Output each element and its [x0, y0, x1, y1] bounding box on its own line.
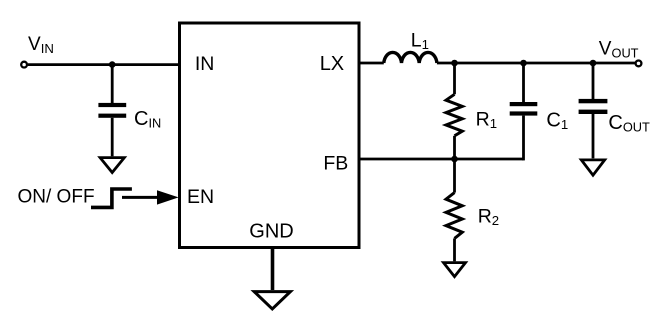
svg-text:LX: LX — [320, 53, 344, 75]
wire R2 bottom lead — [453, 238, 456, 261]
wire FB to C1 bottom — [359, 158, 524, 161]
resistor R1 — [446, 94, 462, 136]
node COUT top — [590, 60, 597, 67]
ground (CIN) — [100, 158, 124, 173]
terminal VIN — [21, 62, 27, 68]
wire COUT top lead — [592, 63, 595, 99]
wire R2 top lead — [453, 159, 456, 193]
node FB/R1/R2 junction — [451, 156, 458, 163]
IC U1 regulator box — [180, 23, 360, 248]
pulse symbol ON/OFF — [91, 189, 132, 207]
wire LX to L1 — [359, 62, 384, 65]
wire VIN to IN pin — [28, 63, 180, 66]
wire COUT bottom lead — [592, 114, 595, 158]
wire CIN bottom lead — [111, 118, 114, 157]
resistor R2 — [446, 193, 462, 239]
capacitor COUT — [579, 99, 608, 114]
node junction VIN/CIN — [109, 61, 116, 68]
wire L1 to VOUT — [437, 62, 635, 65]
wire R1 bottom lead — [453, 136, 456, 159]
wire C1 top lead — [522, 63, 525, 102]
node LX/R1 — [451, 60, 458, 67]
wire C1 bottom lead — [522, 116, 525, 161]
svg-text:ON/ OFF: ON/ OFF — [18, 186, 95, 207]
node C1 top — [520, 60, 527, 67]
arrowhead into EN — [157, 190, 179, 204]
capacitor CIN — [98, 103, 126, 118]
ground (IC GND) — [254, 292, 290, 309]
capacitor C1 — [510, 102, 538, 116]
ground (COUT) — [581, 160, 604, 175]
terminal VOUT — [636, 61, 642, 67]
wire arrow shaft to EN — [122, 196, 160, 199]
inductor L1 — [384, 52, 437, 63]
wire R1 top lead — [453, 63, 456, 94]
wire CIN top lead — [111, 65, 114, 104]
svg-text:IN: IN — [195, 53, 215, 75]
wire GND pin — [271, 248, 275, 291]
ground (R2) — [444, 263, 466, 277]
svg-text:EN: EN — [187, 186, 214, 208]
svg-text:FB: FB — [323, 153, 348, 175]
svg-text:GND: GND — [249, 221, 293, 243]
